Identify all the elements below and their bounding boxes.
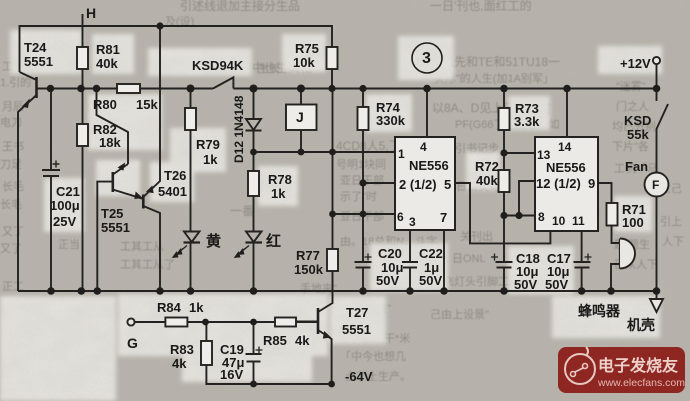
svg-text:T27: T27 — [346, 305, 368, 320]
svg-text:H: H — [86, 5, 96, 21]
svg-text:3.3k: 3.3k — [514, 114, 540, 129]
svg-text:T24: T24 — [24, 40, 47, 55]
svg-text:150k: 150k — [294, 262, 324, 277]
svg-text:1k: 1k — [203, 152, 218, 167]
svg-text:红: 红 — [266, 232, 281, 250]
svg-text:NE556: NE556 — [546, 160, 586, 175]
svg-text:7: 7 — [440, 210, 447, 225]
svg-text:55k: 55k — [627, 127, 649, 142]
svg-text:12 (1/2): 12 (1/2) — [536, 176, 581, 191]
svg-text:C20: C20 — [378, 246, 402, 261]
svg-text:100: 100 — [622, 215, 644, 230]
svg-text:15k: 15k — [136, 97, 158, 112]
svg-text:R84: R84 — [157, 300, 182, 315]
svg-text:R75: R75 — [295, 41, 319, 56]
svg-text:机壳: 机壳 — [627, 317, 655, 333]
svg-text:C22: C22 — [419, 246, 443, 261]
svg-text:10k: 10k — [293, 55, 315, 70]
svg-text:F: F — [652, 178, 659, 192]
svg-text:电子发烧友: 电子发烧友 — [598, 356, 679, 375]
svg-text:Fan: Fan — [625, 159, 648, 174]
svg-text:4k: 4k — [172, 356, 187, 371]
svg-text:50V: 50V — [419, 273, 442, 288]
svg-text:11: 11 — [572, 214, 585, 228]
svg-text:R79: R79 — [196, 137, 220, 152]
svg-text:5551: 5551 — [342, 322, 371, 337]
svg-text:G: G — [127, 335, 138, 351]
svg-text:KSD: KSD — [624, 113, 651, 128]
svg-text:10: 10 — [552, 214, 566, 228]
svg-text:-64V: -64V — [345, 369, 373, 384]
svg-text:R72: R72 — [475, 159, 499, 174]
svg-text:R85: R85 — [263, 333, 287, 348]
svg-text:16V: 16V — [220, 367, 243, 382]
svg-text:R77: R77 — [296, 248, 320, 263]
svg-text:R81: R81 — [96, 42, 120, 57]
svg-text:8: 8 — [538, 210, 545, 224]
svg-text:40k: 40k — [476, 173, 498, 188]
svg-text:T26: T26 — [164, 168, 186, 183]
svg-text:+12V: +12V — [620, 56, 651, 71]
svg-text:25V: 25V — [53, 214, 76, 229]
svg-text:1k: 1k — [271, 186, 286, 201]
svg-text:5551: 5551 — [101, 220, 130, 235]
svg-text:蜂鸣器: 蜂鸣器 — [578, 303, 621, 319]
svg-text:330k: 330k — [376, 113, 406, 128]
svg-text:NE556: NE556 — [409, 158, 449, 173]
svg-text:黄: 黄 — [206, 232, 221, 250]
svg-text:2 (1/2): 2 (1/2) — [399, 177, 437, 192]
svg-text:4: 4 — [420, 140, 427, 154]
svg-text:100μ: 100μ — [50, 198, 80, 213]
svg-text:40k: 40k — [96, 56, 118, 71]
svg-text:R80: R80 — [93, 97, 117, 112]
svg-text:KSD94K: KSD94K — [192, 58, 244, 73]
svg-text:5: 5 — [444, 177, 451, 192]
svg-text:50V: 50V — [545, 277, 568, 292]
svg-text:14: 14 — [558, 140, 572, 154]
svg-text:50V: 50V — [514, 277, 537, 292]
svg-text:3: 3 — [409, 215, 416, 229]
svg-text:5551: 5551 — [24, 54, 53, 69]
svg-text:1: 1 — [398, 147, 405, 161]
svg-text:J: J — [296, 109, 304, 125]
svg-text:6: 6 — [397, 210, 404, 224]
svg-text:T25: T25 — [101, 206, 123, 221]
svg-text:R83: R83 — [170, 342, 194, 357]
svg-text:4k: 4k — [295, 333, 310, 348]
svg-text:1k: 1k — [189, 300, 204, 315]
svg-text:18k: 18k — [99, 135, 121, 150]
svg-text:50V: 50V — [376, 273, 399, 288]
svg-text:www.elecfans.com: www.elecfans.com — [597, 377, 685, 389]
svg-text:3: 3 — [422, 50, 431, 67]
svg-text:9: 9 — [588, 176, 595, 191]
svg-text:C21: C21 — [56, 184, 80, 199]
svg-text:D12 1N4148: D12 1N4148 — [232, 95, 246, 163]
svg-text:5401: 5401 — [158, 184, 187, 199]
svg-text:R78: R78 — [268, 172, 292, 187]
